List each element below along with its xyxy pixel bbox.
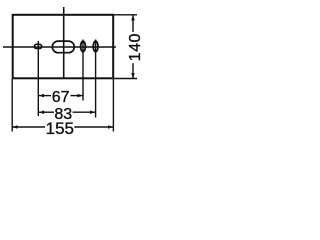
plate outline rectangle [13, 15, 114, 79]
slot hole [34, 44, 41, 48]
wire right oval centerline [95, 40, 97, 118]
wire bottom-right extension [114, 78, 137, 80]
dimension 155 line [12, 126, 45, 128]
wire vertical centerline center obround [63, 7, 65, 79]
svg-text:67: 67 [52, 89, 70, 106]
wire left edge extension down [11, 79, 13, 132]
right oval hole [93, 41, 98, 51]
wire left oval centerline [82, 40, 84, 101]
wire right edge extension down [112, 79, 114, 132]
wire slot centerline [37, 41, 39, 116]
wire horizontal centerline [3, 46, 116, 48]
svg-text:140: 140 [127, 34, 144, 62]
dimension 67 line [39, 95, 51, 97]
dimension 140 line [132, 15, 134, 32]
dimension 83 line [39, 111, 54, 113]
left oval hole [81, 41, 86, 51]
svg-text:155: 155 [46, 119, 74, 138]
wire top-right extension [114, 14, 137, 16]
center obround hole [52, 41, 74, 53]
